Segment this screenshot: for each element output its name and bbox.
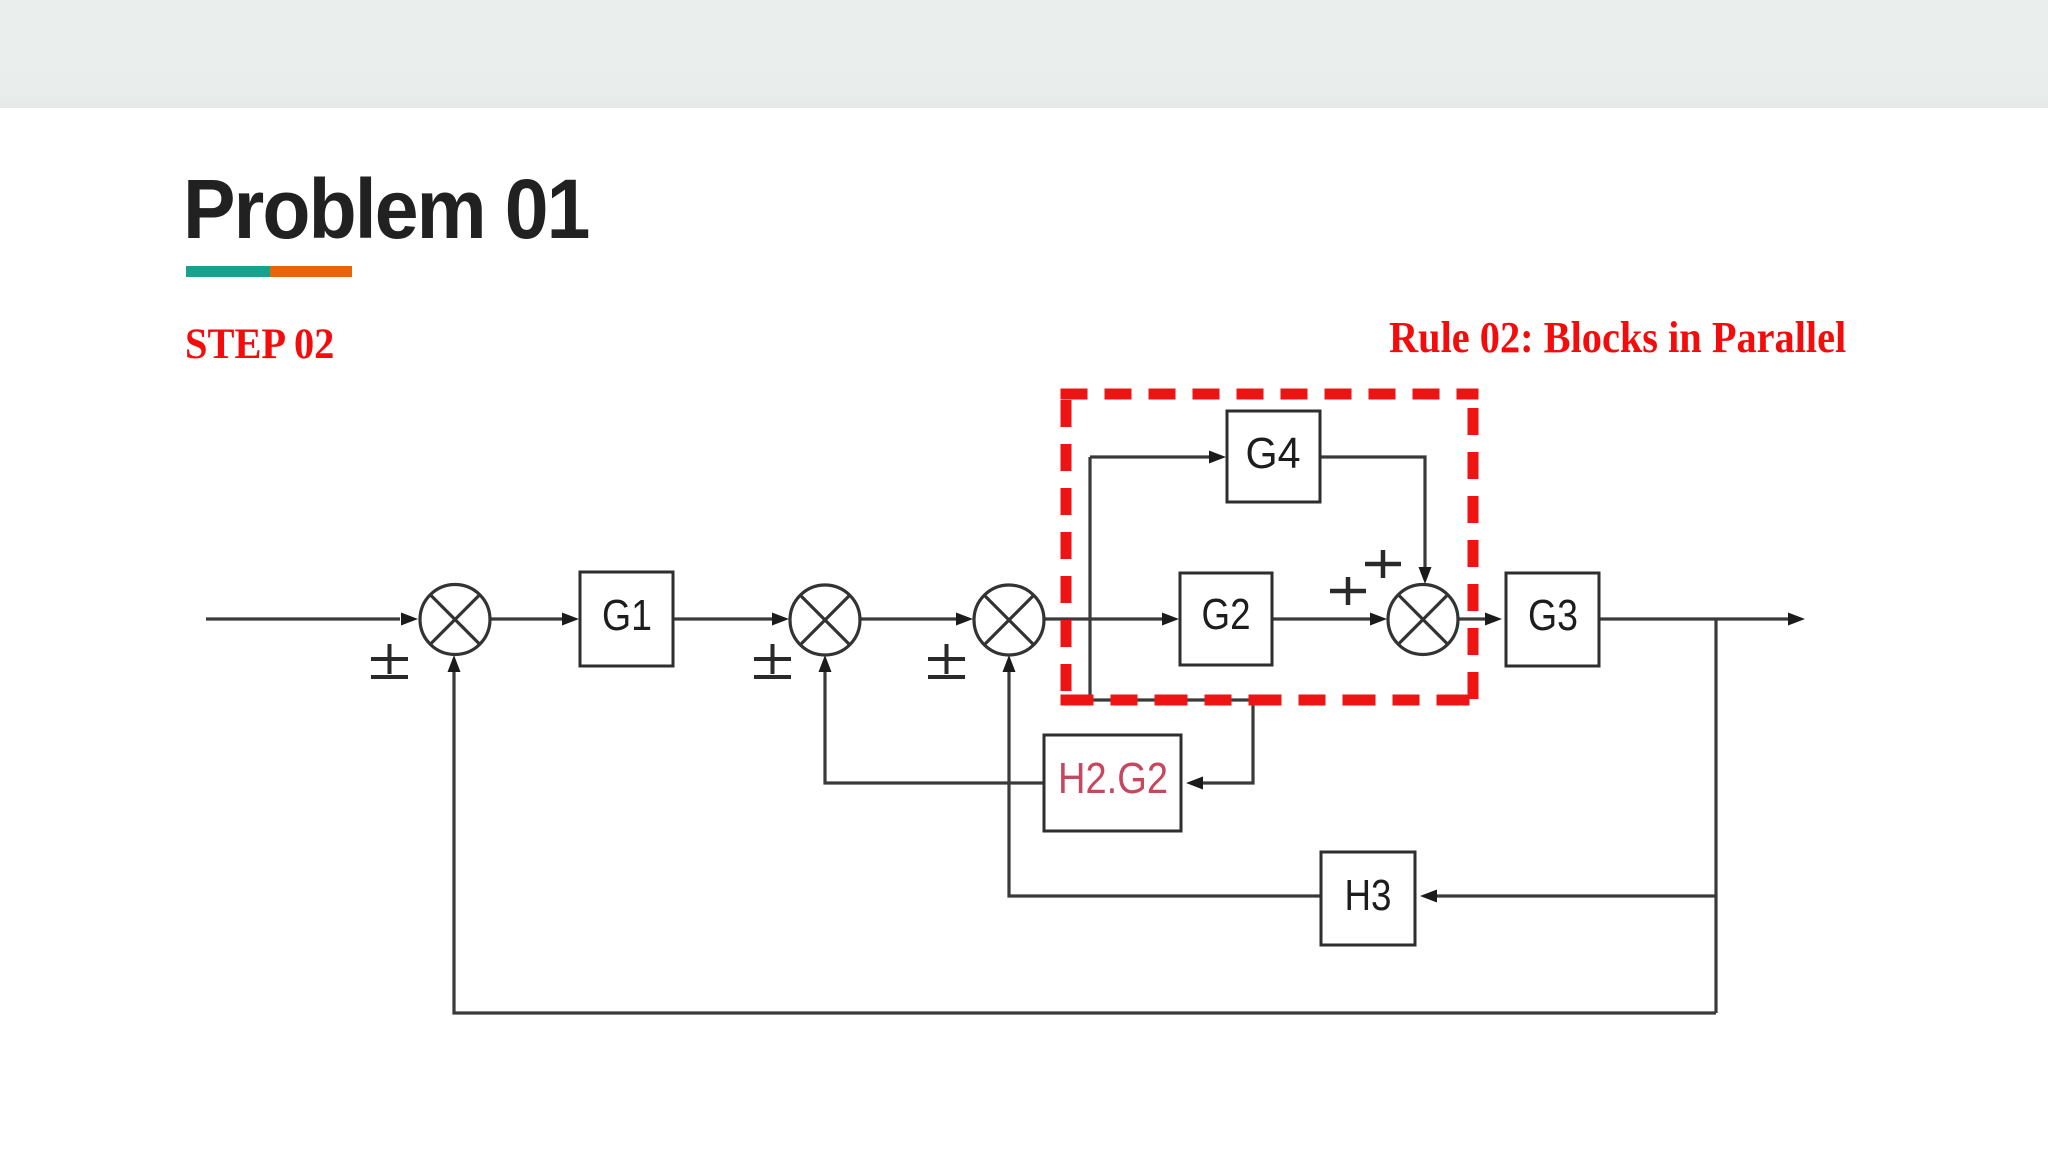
wire branch to G4 <box>1090 455 1210 458</box>
block H2.G2 <box>1044 735 1181 831</box>
red dashed rule box around parallel blocks <box>1061 394 1479 700</box>
block G1 <box>580 572 673 666</box>
arrowhead into S4 left <box>1370 613 1387 626</box>
arrowhead into G4 <box>1209 451 1226 464</box>
arrowhead into G2 <box>1162 613 1179 626</box>
wire G2 to S4 <box>1272 617 1371 620</box>
plus sign upper at S4 <box>1365 562 1401 567</box>
wire outer feedback loop to S1 bottom <box>454 672 1716 1013</box>
wire branch vertical at node B <box>1088 457 1091 700</box>
arrowhead into S1 bottom <box>448 655 461 672</box>
wire tap to H3 <box>1437 894 1716 897</box>
wire branch to H2.G2 input <box>1090 700 1253 783</box>
plus-minus sign at S3 <box>928 657 965 661</box>
arrowhead into S1 <box>401 613 418 626</box>
plus-minus sign at S2 <box>754 657 791 661</box>
dashed box top edge <box>1061 389 1479 400</box>
summing junction S1 <box>420 585 490 655</box>
arrowhead into S3 bottom <box>1003 655 1016 672</box>
wire H3 output to S3 bottom <box>1009 672 1321 896</box>
svg-text:G4: G4 <box>1246 429 1301 478</box>
block G3 <box>1506 573 1599 666</box>
summing junction S3 <box>974 585 1044 655</box>
plus sign lower at S4 <box>1330 589 1366 594</box>
wire G3 output <box>1599 617 1788 620</box>
svg-text:G1: G1 <box>602 591 652 640</box>
arrowhead output end <box>1788 613 1805 626</box>
wire S2 to S3 <box>860 617 957 620</box>
summing junction S2 <box>790 585 860 655</box>
arrowhead into S2 <box>772 613 789 626</box>
arrowhead into H3 <box>1420 890 1437 903</box>
block G2 <box>1180 573 1272 665</box>
wire S3 to G2 <box>1044 617 1163 620</box>
summing junction S4 <box>1388 585 1458 655</box>
arrowhead into G1 <box>562 613 579 626</box>
wire G1 to S2 <box>673 617 773 620</box>
dashed box left edge <box>1061 394 1072 700</box>
svg-text:H3: H3 <box>1345 871 1392 920</box>
arrowhead into S2 bottom <box>819 655 832 672</box>
block G4 <box>1227 411 1320 502</box>
wire H2.G2 output to S2 bottom <box>825 672 1044 783</box>
svg-text:G3: G3 <box>1528 591 1578 640</box>
arrowhead into G3 <box>1485 613 1502 626</box>
arrowhead into S3 <box>956 613 973 626</box>
arrowhead into S4 top <box>1419 567 1432 584</box>
plus-minus sign at S1 <box>371 657 408 661</box>
block H3 <box>1321 852 1415 945</box>
wire S4 to G3 <box>1458 617 1485 620</box>
dashed box right edge <box>1468 394 1479 700</box>
wire S1 to G1 <box>490 617 563 620</box>
arrowhead into H2.G2 <box>1186 777 1203 790</box>
wire input R(s) <box>206 617 400 620</box>
svg-text:H2.G2: H2.G2 <box>1058 754 1168 803</box>
wire G4 output to S4 top <box>1320 457 1425 567</box>
dashed box bottom edge <box>1061 695 1479 706</box>
svg-text:G2: G2 <box>1202 590 1251 639</box>
wire output tap vertical <box>1714 619 1717 1013</box>
